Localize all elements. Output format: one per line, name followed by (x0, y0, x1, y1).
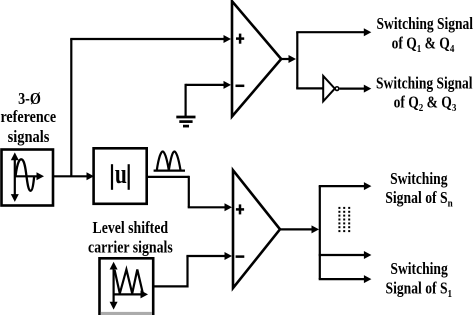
carrier icon horizontal axis (113, 290, 149, 298)
wire |u| out, elbow down to comparator U2 + (147, 176, 232, 212)
svg-text:Switching: Switching (390, 169, 448, 188)
U1 output wire (281, 55, 296, 63)
svg-text:of Q1 & Q4: of Q1 & Q4 (392, 33, 455, 55)
inverter bubble (335, 87, 339, 91)
carrier icon vertical axis (110, 262, 118, 310)
ground wire (186, 81, 231, 116)
|u| block (94, 148, 147, 204)
svg-text:u: u (115, 158, 127, 190)
ground symbol (176, 117, 195, 126)
U1 minus label (236, 85, 245, 88)
comparator U2 (bottom) (233, 170, 280, 288)
svg-text:signals: signals (8, 127, 50, 146)
wire to S1 arrow (319, 275, 372, 283)
rectified wave icon humps (157, 152, 181, 171)
comparator U1 (top) (232, 1, 281, 116)
svg-text:of Q2 & Q3: of Q2 & Q3 (394, 93, 457, 115)
wire inverter to Q2Q3 arrow (340, 85, 372, 93)
wire: junction up (70, 39, 72, 176)
carrier box wire, elbow up to comparator U2 - (153, 252, 232, 288)
wire to Q1Q4 arrow (296, 28, 371, 36)
reference signal source box (2, 150, 54, 206)
svg-text:Signal of Sn: Signal of Sn (385, 188, 453, 210)
svg-text:Switching Signal: Switching Signal (376, 73, 473, 92)
svg-text:Signal of S1: Signal of S1 (386, 279, 453, 301)
sine icon vertical axis (11, 152, 19, 202)
U2 plus label (236, 204, 244, 214)
sine icon wave (16, 159, 35, 191)
rectified wave icon baseline (154, 170, 185, 172)
wire to Sn arrow (319, 182, 372, 190)
svg-text:Level shifted: Level shifted (93, 218, 169, 237)
svg-text:carrier signals: carrier signals (88, 237, 173, 256)
wire branch to inverter (296, 87, 323, 89)
carrier icon triangle wave (115, 270, 143, 294)
wire: top to comparator + input (70, 35, 231, 43)
branch vertical (296, 32, 298, 88)
wire middle arrow (319, 251, 372, 259)
svg-text:Switching Signal: Switching Signal (377, 14, 474, 33)
svg-text:Switching: Switching (390, 259, 448, 278)
inverter (323, 76, 335, 101)
wire: source box to junction to |u| (53, 172, 94, 180)
sine icon horizontal axis (14, 172, 44, 180)
ellipsis dots (338, 207, 350, 232)
carrier signal box (100, 258, 154, 315)
U2 minus label (236, 255, 245, 258)
U1 plus label (236, 34, 244, 44)
bus vertical (319, 186, 321, 279)
U2 output wire (280, 225, 319, 233)
svg-text:3-Ø: 3-Ø (18, 89, 41, 108)
svg-text:reference: reference (0, 107, 56, 126)
